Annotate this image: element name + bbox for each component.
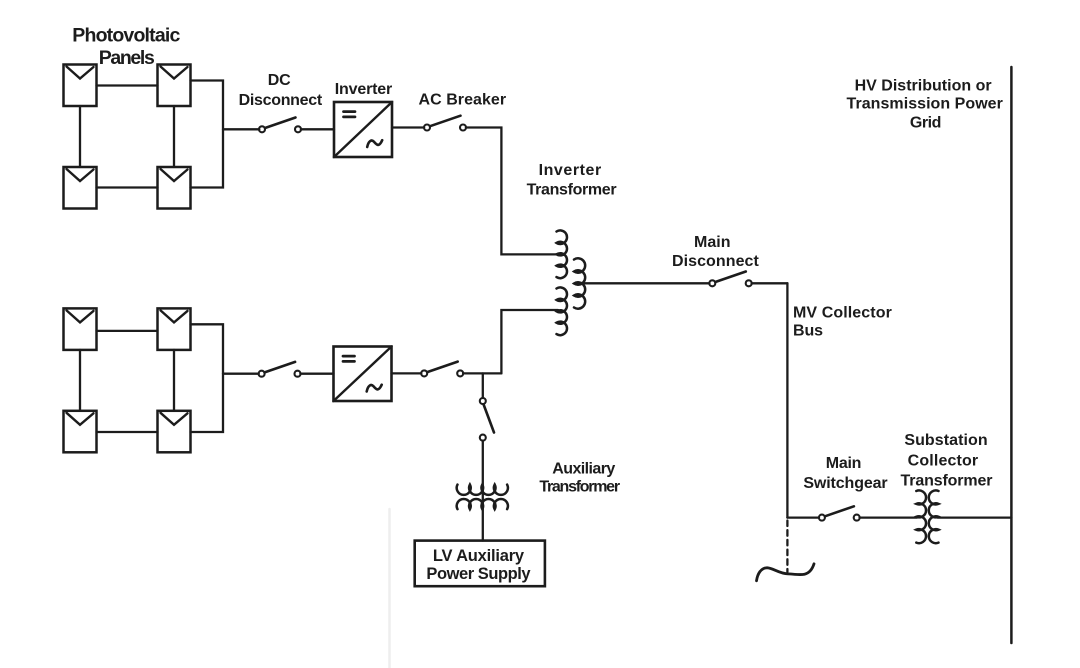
MV collector bus [786,283,788,517]
svg-text:Transformer: Transformer [901,473,993,490]
wire S3 to inverter U2 [300,373,333,375]
wire U2 to S4 [392,372,422,374]
label Main Switchgear [803,455,887,492]
wire PV6 to string bus 2 [191,324,224,432]
PV panel PV5 [64,308,97,350]
svg-text:Disconnect: Disconnect [239,92,323,109]
svg-text:Switchgear: Switchgear [803,475,887,492]
svg-text:Bus: Bus [793,322,823,339]
transformer T3 primary winding [916,490,926,543]
label AC Breaker [419,91,507,108]
svg-text:Substation: Substation [904,432,987,449]
wire string 2 output to S3 [223,373,259,375]
svg-text:DC: DC [268,72,291,89]
label Photovoltaic Panels [72,24,180,68]
wire T3 to HV grid [938,516,1012,518]
svg-text:Photovoltaic: Photovoltaic [72,24,180,46]
svg-text:Main: Main [826,455,862,472]
switch S6 main switchgear [819,506,860,520]
HV grid bus [1010,67,1013,643]
wire S4 to junction [463,372,501,374]
label Auxiliary Transformer [539,460,620,495]
wire PV6-PV8 [173,350,175,411]
svg-text:LV Auxiliary: LV Auxiliary [433,547,525,565]
transformer T1 primary winding top group [557,230,568,278]
switch S5 main disconnect [709,272,751,287]
svg-text:Inverter: Inverter [539,162,602,179]
wire PV7-PV8 [97,431,158,433]
switch S1 DC disconnect [259,118,301,133]
svg-text:Panels: Panels [99,47,155,69]
wire PV2 to string bus [191,81,224,188]
svg-text:Collector: Collector [908,453,979,470]
PV panel PV7 [64,411,97,453]
transformer T1 secondary winding [574,258,585,308]
wire string output to DC disconnect [223,128,259,130]
wire T1 primary bottom to inverter U2 circuit [501,310,558,373]
label Inverter Transformer [527,162,617,198]
PV panel PV3 [64,167,97,209]
svg-text:Disconnect: Disconnect [672,253,760,270]
svg-text:Main: Main [694,234,731,251]
PV panel PV8 [158,411,191,453]
switch S3 DC disconnect 2 [259,362,301,377]
wire PV1-PV2 [97,84,158,86]
svg-text:MV Collector: MV Collector [793,304,892,321]
switch S2 AC breaker [424,116,466,131]
PV panel PV4 [158,167,191,209]
svg-text:Transformer: Transformer [539,479,620,496]
svg-text:Power Supply: Power Supply [426,565,531,583]
wire PV3-PV4 [97,186,158,188]
transformer T2 secondary winding [457,499,508,509]
wire aux tap down [482,373,484,398]
label Inverter [335,81,393,98]
wire PV5-PV7 [79,350,81,411]
transformer T3 secondary winding [929,490,939,543]
label Main Disconnect [672,234,760,270]
PV panel PV2 [158,65,191,107]
label LV Auxiliary Power Supply [426,547,531,583]
label Substation Collector Transformer [901,432,993,490]
label HV Distribution or Transmission Power Grid [847,77,1003,131]
wire S2 to transformer T1 primary top [466,128,558,255]
wire PV2-PV4 [173,106,175,167]
scan artifact faint line [388,509,391,668]
label DC Disconnect [239,72,323,109]
wire MV bus to S6 [787,516,819,518]
wire PV5-PV6 [97,330,158,332]
svg-text:Transformer: Transformer [527,181,617,198]
svg-text:Transmission Power: Transmission Power [847,95,1003,112]
svg-text:Inverter: Inverter [335,81,393,98]
svg-text:Auxiliary: Auxiliary [552,460,615,477]
wire PV1-PV3 [79,106,81,167]
transformer T2 primary winding [457,485,508,495]
svg-text:Grid: Grid [910,114,942,131]
svg-text:AC Breaker: AC Breaker [419,91,507,108]
LV auxiliary power supply box [415,541,545,587]
inverter U2 [334,347,392,402]
switch S4 AC breaker 2 [421,362,463,377]
wire T1 secondary to main disconnect [585,282,709,284]
label MV Collector Bus [793,304,892,339]
squiggle break symbol [757,564,815,581]
wire S5 to MV bus [752,282,788,284]
PV panel PV6 [158,308,191,350]
dashed bus continuation [786,521,788,573]
transformer T1 primary winding bottom group [557,287,568,335]
inverter U1 [334,102,392,157]
wire S6 to transformer T3 [860,516,917,518]
switch S7 aux breaker [480,398,494,441]
wire S1 to inverter U1 [301,128,334,130]
svg-text:HV Distribution or: HV Distribution or [855,77,992,94]
wire S7 to aux transformer T2 [482,441,484,541]
wire U1 to S2 [392,126,424,128]
PV panel PV1 [64,65,97,107]
